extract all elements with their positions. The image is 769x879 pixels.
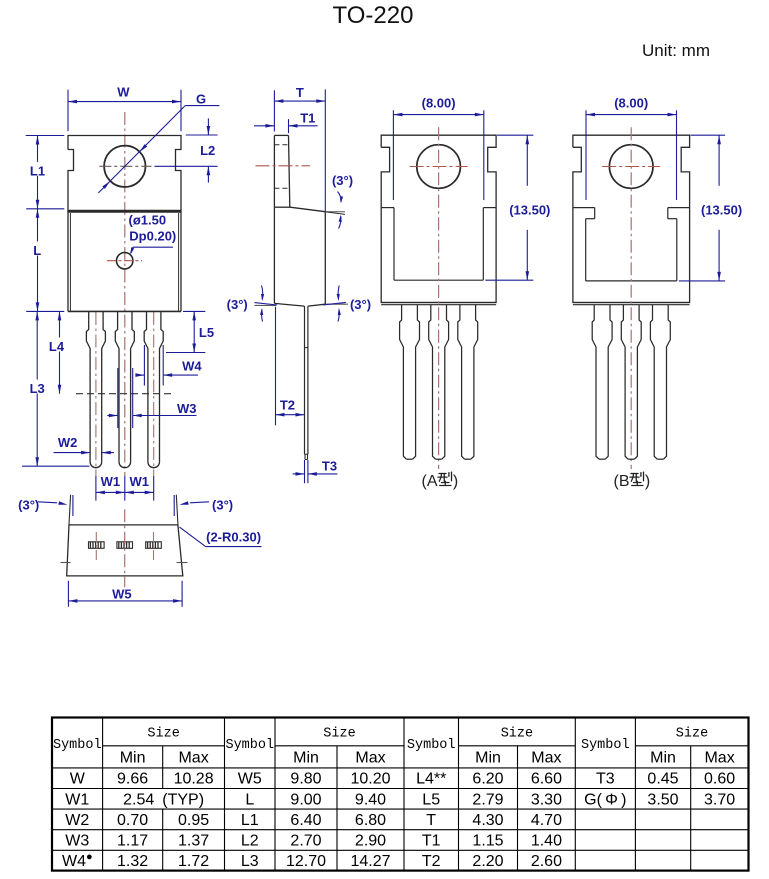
side view hole depth dashes bbox=[274, 145, 289, 189]
svg-text:1.17: 1.17 bbox=[117, 833, 148, 850]
svg-text:): ) bbox=[453, 473, 458, 490]
svg-text:Symbol: Symbol bbox=[407, 738, 456, 753]
svg-text:W3: W3 bbox=[65, 833, 89, 850]
view A dimension 13.50 bbox=[485, 135, 550, 280]
svg-text:6.40: 6.40 bbox=[290, 812, 321, 829]
svg-text:0.95: 0.95 bbox=[178, 812, 209, 829]
front view small hole bbox=[117, 253, 133, 269]
svg-text:Max: Max bbox=[178, 749, 208, 766]
front view mounting hole crosshair bbox=[99, 165, 151, 167]
dimension T bbox=[274, 85, 325, 212]
view A dimension 8.00 bbox=[393, 95, 483, 200]
svg-text:4.30: 4.30 bbox=[472, 812, 503, 829]
view A caption bbox=[422, 472, 459, 490]
svg-text:6.80: 6.80 bbox=[355, 812, 386, 829]
dimension W5 bbox=[68, 581, 182, 607]
svg-text:W5: W5 bbox=[112, 586, 132, 601]
svg-text:L1: L1 bbox=[241, 812, 259, 829]
svg-text:1.37: 1.37 bbox=[178, 833, 209, 850]
view B dimension 8.00 bbox=[586, 95, 677, 200]
svg-text:L1: L1 bbox=[30, 163, 45, 178]
bottom view left angle label bbox=[18, 497, 67, 512]
svg-text:Size: Size bbox=[501, 727, 533, 742]
svg-text:2.90: 2.90 bbox=[355, 833, 386, 850]
view B lead 2 bbox=[621, 305, 641, 460]
svg-text:L3: L3 bbox=[30, 381, 45, 396]
svg-text:W1: W1 bbox=[129, 474, 149, 489]
svg-text:3.30: 3.30 bbox=[531, 791, 562, 808]
svg-text:1.72: 1.72 bbox=[178, 853, 209, 870]
svg-text:(8.00): (8.00) bbox=[614, 95, 648, 110]
svg-text:1.15: 1.15 bbox=[472, 833, 503, 850]
svg-text:Max: Max bbox=[704, 749, 734, 766]
title TO-220 bbox=[333, 2, 414, 29]
svg-text:(A: (A bbox=[422, 473, 438, 490]
small hole label bbox=[129, 212, 177, 255]
svg-text:2.20: 2.20 bbox=[472, 853, 503, 870]
dimension L2 bbox=[154, 118, 217, 182]
svg-text:2.60: 2.60 bbox=[531, 853, 562, 870]
svg-text:G( Φ ): G( Φ ) bbox=[584, 791, 626, 808]
svg-text:(3°): (3°) bbox=[332, 173, 353, 188]
svg-text:0.70: 0.70 bbox=[117, 812, 148, 829]
front view lead 3 bbox=[144, 311, 163, 467]
unit label bbox=[642, 41, 710, 60]
svg-text:10.20: 10.20 bbox=[350, 771, 390, 788]
bottom view lead section 2 centerline bbox=[124, 509, 126, 587]
svg-text:2.54 (TYP): 2.54 (TYP) bbox=[123, 791, 204, 808]
front view mounting hole bbox=[104, 146, 145, 187]
svg-text:2.79: 2.79 bbox=[472, 791, 503, 808]
bottom view lead section 1 bbox=[89, 542, 105, 549]
svg-text:Size: Size bbox=[147, 727, 179, 742]
dimension L3 bbox=[22, 311, 89, 466]
svg-text:L4: L4 bbox=[49, 339, 65, 354]
view A centerline bbox=[438, 127, 440, 469]
view A mounting hole bbox=[417, 145, 461, 189]
bottom view lead section 2 bbox=[117, 542, 133, 549]
svg-text:(13.50): (13.50) bbox=[509, 202, 550, 217]
svg-text:12.70: 12.70 bbox=[286, 853, 326, 870]
svg-text:9.00: 9.00 bbox=[290, 791, 321, 808]
svg-text:Min: Min bbox=[120, 749, 146, 766]
svg-text:1.32: 1.32 bbox=[117, 853, 148, 870]
svg-text:L5: L5 bbox=[422, 791, 440, 808]
svg-text:W: W bbox=[70, 771, 86, 788]
svg-text:Symbol: Symbol bbox=[53, 738, 102, 753]
svg-text:Symbol: Symbol bbox=[581, 738, 630, 753]
view B caption bbox=[614, 472, 651, 490]
svg-text:): ) bbox=[645, 473, 650, 490]
dimension L1 bbox=[26, 136, 65, 209]
view B lead 1 bbox=[592, 305, 612, 460]
svg-text:T2: T2 bbox=[422, 853, 441, 870]
svg-text:W3: W3 bbox=[177, 401, 197, 416]
front view lead 2 bbox=[115, 311, 134, 467]
dimension W3 bbox=[107, 368, 196, 428]
svg-text:L4**: L4** bbox=[416, 771, 446, 788]
view B outline bbox=[573, 135, 690, 305]
svg-text:W4●: W4● bbox=[62, 851, 93, 870]
dimension L4 bbox=[49, 311, 65, 393]
dimension W4 bbox=[135, 345, 202, 386]
svg-text:W4: W4 bbox=[182, 359, 202, 374]
svg-text:L: L bbox=[245, 791, 254, 808]
front view body outline bbox=[68, 211, 181, 311]
svg-text:6.60: 6.60 bbox=[531, 771, 562, 788]
front view tab outline bbox=[68, 136, 181, 212]
svg-text:T1: T1 bbox=[422, 833, 441, 850]
view B hole crosshair bbox=[602, 166, 660, 168]
svg-text:3.70: 3.70 bbox=[704, 791, 735, 808]
svg-text:T3: T3 bbox=[596, 771, 615, 788]
svg-text:(B: (B bbox=[614, 473, 630, 490]
svg-text:Min: Min bbox=[650, 749, 676, 766]
dimension W1 W1 bbox=[96, 474, 154, 501]
svg-text:T1: T1 bbox=[300, 110, 315, 125]
svg-text:L2: L2 bbox=[241, 833, 259, 850]
view A outline bbox=[381, 135, 496, 305]
side view bottom right draft angle bbox=[323, 286, 371, 322]
view A lead 2 bbox=[429, 305, 449, 460]
view B centerline bbox=[630, 127, 632, 469]
svg-text:0.60: 0.60 bbox=[704, 771, 735, 788]
L4 reference dashed line bbox=[76, 393, 171, 395]
svg-text:G: G bbox=[196, 92, 206, 107]
view A heatsink tab inner outline bbox=[381, 208, 496, 281]
front view small hole crosshair bbox=[107, 260, 142, 262]
view B heatsink tab inner outline bbox=[573, 208, 690, 281]
dimension T3 bbox=[293, 459, 338, 484]
svg-text:0.45: 0.45 bbox=[647, 771, 678, 788]
svg-text:10.28: 10.28 bbox=[174, 771, 214, 788]
svg-text:9.66: 9.66 bbox=[117, 771, 148, 788]
svg-text:W2: W2 bbox=[58, 435, 78, 450]
svg-text:W1: W1 bbox=[101, 474, 121, 489]
svg-text:Size: Size bbox=[676, 727, 708, 742]
front view lead3 centerline bbox=[153, 312, 155, 476]
view B mounting hole bbox=[609, 145, 653, 189]
svg-text:L3: L3 bbox=[241, 853, 259, 870]
svg-text:T: T bbox=[426, 812, 436, 829]
view A lead 1 bbox=[400, 305, 420, 460]
dimension W bbox=[68, 85, 181, 132]
front view lead1 centerline bbox=[95, 312, 97, 476]
svg-text:T2: T2 bbox=[280, 398, 295, 413]
bottom view right angle label bbox=[180, 498, 234, 513]
svg-text:TO-220: TO-220 bbox=[333, 2, 414, 29]
bottom view side center ticks bbox=[61, 562, 188, 564]
svg-text:Max: Max bbox=[355, 749, 385, 766]
svg-text:14.27: 14.27 bbox=[350, 853, 390, 870]
svg-text:(3°): (3°) bbox=[18, 497, 39, 512]
svg-text:L5: L5 bbox=[199, 325, 214, 340]
svg-text:9.80: 9.80 bbox=[290, 771, 321, 788]
table headers bbox=[53, 727, 735, 767]
dimension T1 bbox=[254, 110, 318, 133]
svg-text:Max: Max bbox=[531, 749, 561, 766]
svg-text:(3°): (3°) bbox=[212, 498, 233, 513]
svg-text:Dp0.20): Dp0.20) bbox=[129, 229, 176, 244]
table data bbox=[62, 771, 735, 870]
svg-text:3.50: 3.50 bbox=[647, 791, 678, 808]
svg-text:L2: L2 bbox=[200, 143, 215, 158]
side view tab outline bbox=[274, 135, 289, 207]
dimension G bbox=[98, 92, 219, 193]
svg-text:(3°): (3°) bbox=[227, 297, 248, 312]
view B lead 3 bbox=[650, 305, 670, 460]
svg-text:(3°): (3°) bbox=[350, 297, 371, 312]
svg-text:(ø1.50: (ø1.50 bbox=[129, 212, 167, 227]
dimension W2 bbox=[54, 435, 114, 454]
side view bottom left draft angle bbox=[227, 286, 277, 322]
corner radius label 2-R0.30 bbox=[180, 527, 262, 547]
dimension L5 bbox=[166, 311, 214, 352]
svg-text:W: W bbox=[117, 85, 130, 100]
side view top draft angle bbox=[325, 173, 353, 229]
view B dimension 13.50 bbox=[679, 135, 742, 281]
bottom view lead section 3 bbox=[146, 542, 162, 549]
svg-text:4.70: 4.70 bbox=[531, 812, 562, 829]
svg-text:2.70: 2.70 bbox=[290, 833, 321, 850]
svg-text:W5: W5 bbox=[238, 771, 262, 788]
bottom view outline bbox=[67, 525, 183, 576]
svg-text:(8.00): (8.00) bbox=[422, 95, 456, 110]
svg-text:(2-R0.30): (2-R0.30) bbox=[206, 529, 261, 544]
bottom view left draft lines bbox=[69, 495, 73, 526]
dimension T2 bbox=[276, 307, 305, 426]
front view tab-body thick boundary bbox=[68, 210, 181, 213]
svg-text:Min: Min bbox=[293, 749, 319, 766]
front view centerline bbox=[124, 112, 126, 476]
svg-text:W1: W1 bbox=[65, 791, 89, 808]
svg-text:Size: Size bbox=[323, 727, 355, 742]
svg-text:1.40: 1.40 bbox=[531, 833, 562, 850]
side view lead bbox=[305, 306, 308, 459]
svg-text:Symbol: Symbol bbox=[225, 738, 274, 753]
side view hole centerline bbox=[256, 165, 310, 167]
bottom view lead section 1 centerline bbox=[95, 532, 97, 561]
dimension L bbox=[26, 209, 64, 312]
svg-text:(13.50): (13.50) bbox=[701, 202, 742, 217]
svg-text:Min: Min bbox=[475, 749, 501, 766]
side view body outline bbox=[274, 207, 325, 306]
view A hole crosshair bbox=[410, 166, 468, 168]
svg-text:T3: T3 bbox=[322, 459, 337, 474]
svg-text:T: T bbox=[296, 85, 304, 100]
svg-text:9.40: 9.40 bbox=[355, 791, 386, 808]
front view lead 1 bbox=[86, 311, 105, 467]
svg-text:L: L bbox=[33, 243, 41, 258]
svg-text:Unit: mm: Unit: mm bbox=[642, 41, 710, 60]
specification table bbox=[52, 718, 749, 871]
bottom view right draft lines bbox=[174, 495, 178, 526]
svg-text:W2: W2 bbox=[65, 812, 89, 829]
bottom view lead section 3 centerline bbox=[153, 532, 155, 561]
view A lead 3 bbox=[458, 305, 478, 460]
svg-text:6.20: 6.20 bbox=[472, 771, 503, 788]
